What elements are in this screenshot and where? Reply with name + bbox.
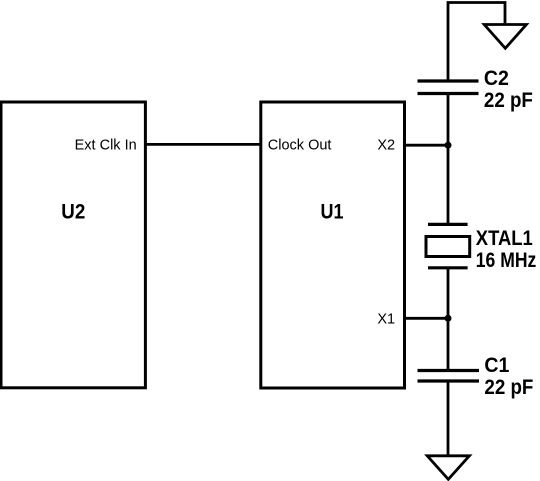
wire U2 Ext Clk In to U1 Clock Out (145, 143, 261, 146)
svg-text:Ext Clk In: Ext Clk In (75, 138, 137, 154)
svg-text:16 MHz: 16 MHz (476, 249, 537, 272)
svg-text:C1: C1 (484, 354, 509, 377)
svg-text:Clock Out: Clock Out (268, 138, 332, 154)
svg-text:C2: C2 (484, 67, 509, 90)
crystal XTAL1 (426, 224, 470, 267)
wire C1 bottom to ground (bottom) (447, 381, 450, 456)
wire top net: C2 top to ground (top) (448, 3, 505, 82)
svg-text:U2: U2 (61, 201, 85, 224)
svg-text:U1: U1 (321, 201, 344, 224)
capacitor C2 (418, 81, 479, 94)
junction node X1 (445, 315, 452, 322)
IC U2 (1, 102, 145, 388)
wire U1 X2 to node X2 (404, 144, 448, 147)
svg-text:X2: X2 (377, 138, 395, 154)
wire C2 bottom to crystal top (through node X2) (447, 94, 450, 225)
svg-text:22 pF: 22 pF (484, 376, 533, 399)
wire crystal bottom to C1 top (through node X1) (447, 268, 450, 371)
junction node X2 (445, 142, 452, 149)
svg-text:X1: X1 (377, 312, 395, 328)
svg-text:22 pF: 22 pF (484, 89, 533, 112)
ground (bottom) (427, 456, 469, 480)
svg-text:XTAL1: XTAL1 (476, 227, 533, 250)
IC U1 (261, 102, 405, 388)
capacitor C1 (418, 371, 480, 382)
ground (top) (484, 25, 526, 49)
wire U1 X1 to node X1 (404, 317, 448, 320)
